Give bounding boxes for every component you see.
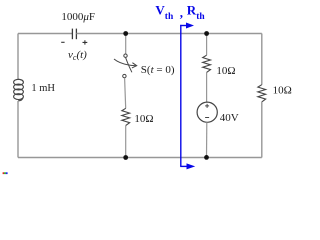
wire source branch lower — [206, 122, 208, 157]
Thevenin top arrow — [180, 25, 187, 27]
source minus — [205, 117, 209, 119]
svg-text:Vth,Rth: Vth,Rth — [155, 3, 205, 23]
svg-text:1000μF: 1000μF — [61, 11, 95, 23]
node dot top middle — [123, 31, 128, 36]
svg-text:10Ω: 10Ω — [216, 65, 235, 77]
resistor R3 10ohm right — [258, 85, 266, 102]
artifact dots bottom-left — [3, 172, 5, 174]
wire middle branch upper — [125, 34, 127, 55]
wire bottom — [18, 157, 262, 159]
polarity plus — [83, 40, 88, 44]
wire right upper — [261, 34, 263, 85]
svg-text:10Ω: 10Ω — [134, 113, 153, 125]
resistor R1 10ohm middle — [122, 108, 130, 125]
svg-text:1 mH: 1 mH — [31, 83, 55, 94]
wire source branch upper — [206, 34, 208, 56]
wire top-left segment — [18, 33, 72, 35]
voltage source V1 40V — [197, 102, 217, 122]
wire middle branch lower — [125, 126, 127, 158]
wire left upper — [17, 34, 19, 80]
svg-text:vc(t): vc(t) — [68, 49, 87, 62]
capacitor C 1000uF — [72, 29, 76, 40]
source plus — [205, 104, 209, 108]
node dot bottom middle — [123, 155, 128, 160]
switch S terminal top — [124, 54, 127, 57]
Thevenin bottom arrow — [180, 165, 187, 167]
svg-text:10Ω: 10Ω — [273, 84, 292, 96]
switch blade — [126, 58, 132, 73]
switch S terminal bottom — [123, 74, 126, 77]
wire middle branch mid — [125, 78, 126, 108]
node dot bottom source — [204, 155, 209, 160]
inductor L1 1mH — [14, 79, 24, 101]
svg-text:40V: 40V — [220, 112, 239, 124]
polarity minus — [61, 41, 64, 43]
resistor R2 10ohm source branch — [203, 55, 211, 72]
Thevenin port marker blue line — [180, 25, 182, 167]
wire left lower — [17, 101, 19, 158]
switch motion arrow — [114, 59, 136, 66]
wire right lower — [261, 102, 263, 158]
node dot top source — [204, 31, 209, 36]
svg-text:S(t = 0): S(t = 0) — [141, 64, 175, 76]
wire top-right segment — [76, 33, 261, 35]
wire source branch mid — [206, 72, 208, 102]
